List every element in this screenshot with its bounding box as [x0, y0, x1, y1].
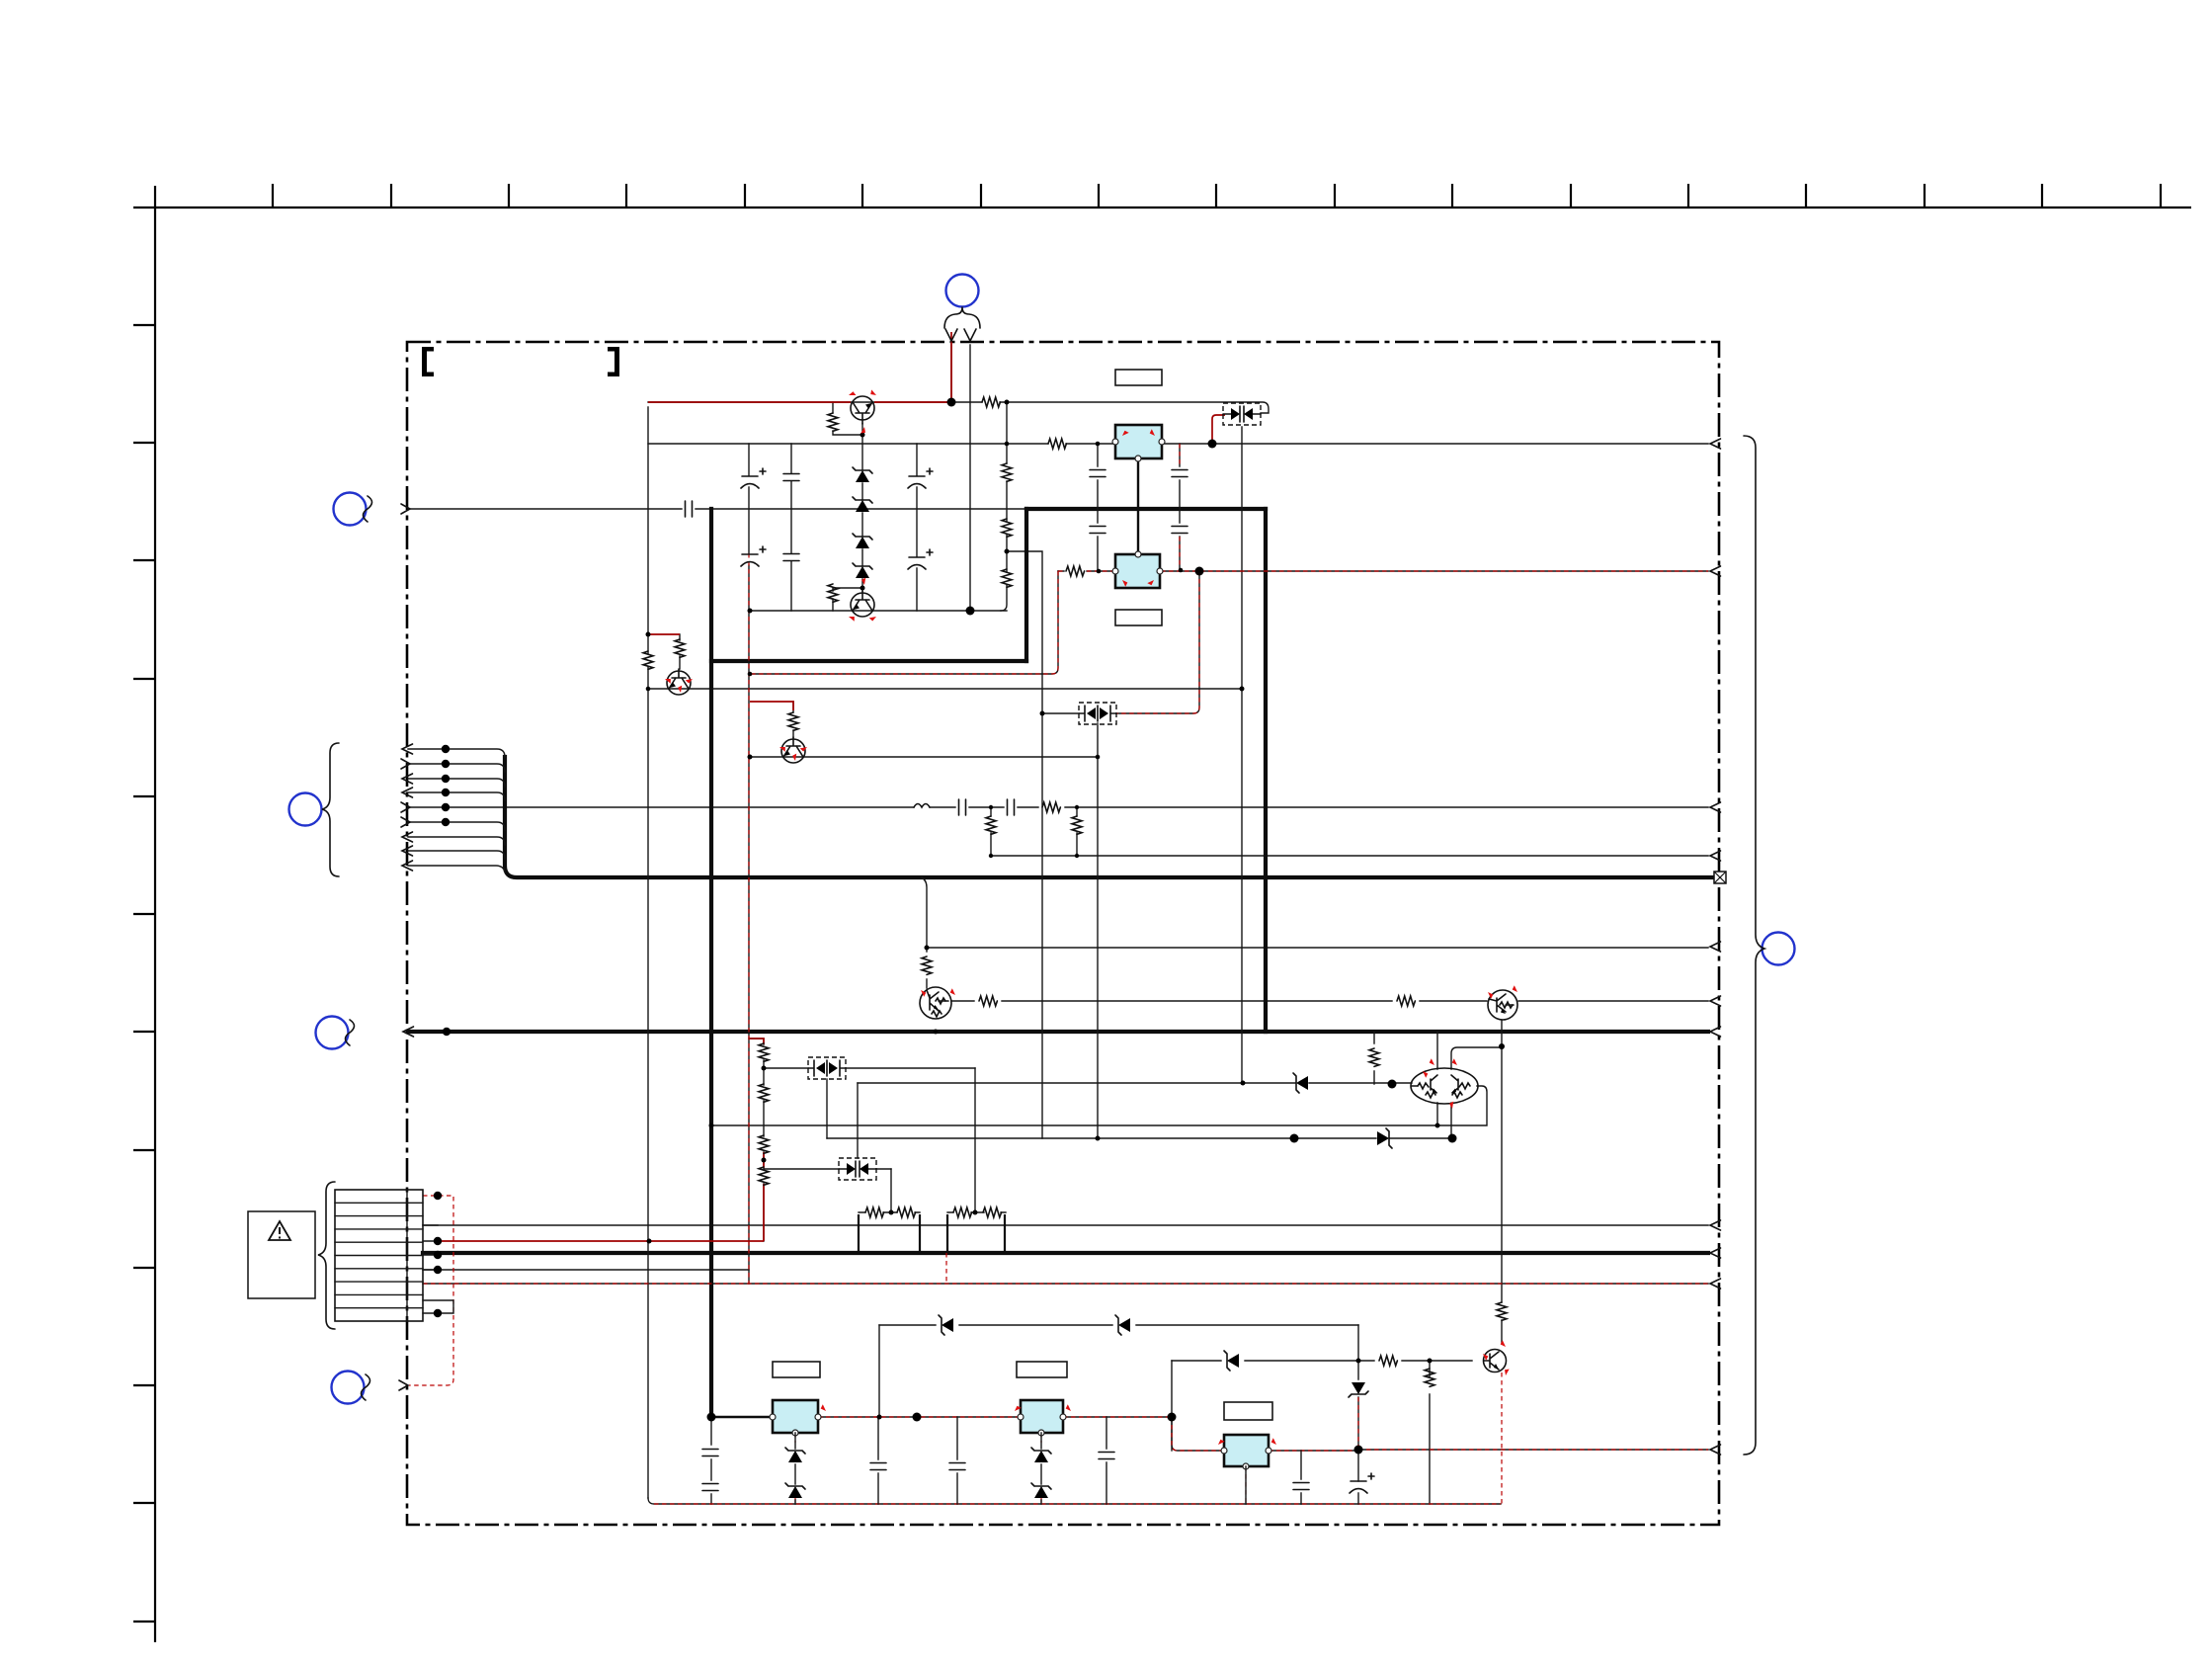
- connector CN5 entry arrow: [399, 1380, 408, 1390]
- wire x805 base: [792, 702, 794, 737]
- connector CN3 circle: [289, 793, 322, 826]
- wire red-dash connector entry: [409, 1196, 453, 1385]
- wire x902: [890, 1169, 892, 1212]
- frame top tick marks: [273, 184, 2161, 208]
- connector CN5 marks: [362, 1374, 370, 1400]
- wire C16 stubs: [877, 1417, 879, 1504]
- wire red y407: [648, 401, 951, 403]
- capacitor C10: [1172, 470, 1188, 477]
- zener D10: [1349, 1382, 1368, 1397]
- wire y1152: [827, 1137, 1452, 1139]
- connector CN6 circle: [1762, 933, 1795, 965]
- frame left border line: [154, 186, 156, 1642]
- label LB3: [773, 1362, 820, 1377]
- wire red y1256: [438, 1240, 764, 1242]
- resistor R2: [828, 584, 838, 602]
- wire C17 stubs: [956, 1417, 958, 1504]
- wire x843 t1: [833, 402, 862, 435]
- connector CN3 arrows in: [401, 759, 410, 827]
- transistor Q4: [781, 737, 805, 763]
- wire red-dash x1214: [1116, 571, 1199, 713]
- IC U2: [1112, 551, 1163, 588]
- wire red top entry x963: [950, 332, 952, 402]
- wire x1186: [1172, 1361, 1224, 1451]
- capacitor C19: [1293, 1483, 1309, 1490]
- wire net A y449: [648, 443, 1708, 445]
- resistor R25: [1066, 566, 1085, 576]
- frame top border line: [133, 207, 2191, 208]
- board name bracket left: [422, 347, 434, 376]
- frame left tick marks: [133, 325, 155, 1622]
- wire ic1t-ic2t link: [1137, 458, 1139, 554]
- wire y407: [648, 402, 1269, 413]
- zener D4: [853, 563, 872, 578]
- resistor R21: [759, 1167, 769, 1185]
- resistor network RN2: [947, 1207, 1006, 1253]
- connector CN4 circle: [316, 1017, 349, 1049]
- connector CN1 circle: [946, 275, 979, 307]
- dual transistor Q7: [1411, 1068, 1478, 1104]
- transistor Q3: [667, 669, 691, 695]
- wire red tb stub: [750, 702, 793, 710]
- wire x890: [878, 1325, 880, 1417]
- resistor R17: [1369, 1048, 1379, 1066]
- resistor R16: [1397, 996, 1415, 1006]
- wire net C y578 output: [1161, 570, 1708, 572]
- wire x758 column: [748, 444, 750, 1284]
- label LB1: [1115, 370, 1162, 385]
- wire x1214: [1116, 571, 1199, 713]
- capacitor C5: [908, 468, 933, 488]
- CONNECTORS: [248, 275, 1795, 1456]
- transistor Q2: [851, 591, 874, 617]
- wire x1257: [1241, 427, 1243, 1083]
- resistor R4: [1002, 519, 1012, 537]
- wire thick x1281: [1264, 509, 1268, 1032]
- wire x720 caps-to-rail: [710, 1417, 712, 1504]
- resistor R11: [1042, 802, 1060, 812]
- wire thick y669: [711, 659, 1026, 663]
- wire x982: [969, 345, 971, 611]
- capacitor C13: [1008, 799, 1015, 815]
- wire pc2 center stub: [857, 1083, 859, 1158]
- capacitor C6: [908, 549, 933, 569]
- capacitor C7: [686, 501, 693, 517]
- zener D9: [1224, 1351, 1239, 1371]
- wire red-dash x758: [748, 553, 750, 1284]
- photocoupler PC4: [1079, 703, 1116, 724]
- wire red-dash ic row: [818, 1417, 1224, 1451]
- resistor R14: [922, 957, 932, 974]
- wire net B y515: [409, 508, 1028, 510]
- wire x1186b: [1171, 1417, 1173, 1451]
- capacitor C17: [949, 1463, 965, 1470]
- capacitor C18: [1099, 1453, 1114, 1459]
- wire x656: [647, 407, 649, 1498]
- resistor R6: [982, 397, 1000, 407]
- wire red-dash ic3 out: [1269, 1450, 1708, 1451]
- connector CN1 brace: [944, 307, 980, 328]
- wire zener stubs: [795, 1433, 1041, 1504]
- capacitor C3: [783, 474, 799, 481]
- connector CN4 marks: [346, 1020, 355, 1045]
- resistor R15: [979, 996, 997, 1006]
- wire x1520: [1501, 1021, 1503, 1344]
- wire net C left y578: [1058, 570, 1116, 572]
- wire thick y1268: [423, 1251, 1708, 1255]
- wire C18 stubs: [1106, 1417, 1107, 1504]
- wire pc1 row: [764, 1067, 975, 1069]
- wire C19 stubs: [1300, 1451, 1302, 1504]
- wire y697: [647, 688, 1242, 690]
- capacitor C16: [870, 1463, 886, 1470]
- resistor R3: [1002, 463, 1012, 481]
- wire pc1 bottom stub: [826, 1079, 828, 1138]
- zener D12: [785, 1483, 805, 1498]
- REDOVERLAY: [409, 332, 1708, 1504]
- node bundle wires: [408, 749, 505, 872]
- wire red-dash y578: [1058, 570, 1708, 572]
- capacitor C11: [1172, 527, 1188, 534]
- resistor R10: [788, 712, 798, 730]
- capacitor C9: [1090, 527, 1106, 534]
- wire y1096: [858, 1082, 1412, 1084]
- wire x1375: [1357, 1325, 1359, 1450]
- wire red-dash rail: [654, 1503, 1501, 1505]
- wire x1071 red path: [750, 571, 1058, 674]
- inductor L1: [914, 804, 930, 808]
- connector CN6 brace: [1744, 436, 1764, 1455]
- connector CN4 arrow: [403, 1027, 414, 1037]
- wire thick y1044: [408, 1030, 1708, 1034]
- wire y955: [927, 947, 1708, 949]
- wire y1377: [1172, 1360, 1472, 1362]
- zener D1: [853, 467, 872, 482]
- connector CN7 block: [335, 1190, 423, 1321]
- capacitor C8: [1090, 470, 1106, 477]
- wire y618: [750, 610, 1007, 612]
- resistor R19: [759, 1084, 769, 1102]
- resistor R22: [1379, 1356, 1397, 1366]
- transistor Q8: [1484, 1350, 1507, 1373]
- wire rc resistors x1003 x1090: [991, 807, 1077, 856]
- wire red pc1t feed: [1212, 415, 1225, 442]
- wire y1139: [711, 1124, 1437, 1126]
- label LB5: [1224, 1402, 1272, 1420]
- wire y1299 rail: [423, 1283, 1708, 1285]
- board outline dash-dot box: [407, 342, 1719, 1525]
- wire R17 stubs: [1373, 1032, 1375, 1084]
- connector CN2 entry arrow: [401, 504, 410, 514]
- transistor Q5: [920, 987, 951, 1019]
- red pin arrows: [664, 389, 1519, 1375]
- wire y1285: [423, 1269, 749, 1271]
- resistor R13: [1072, 816, 1082, 834]
- wire y1060 link: [1451, 1047, 1502, 1069]
- wire ic row mid y1434: [818, 1416, 1172, 1418]
- IC U4: [1014, 1400, 1073, 1436]
- wire y766: [750, 756, 1098, 758]
- wire x773 chain: [749, 1039, 764, 1241]
- wire x987: [974, 1068, 976, 1212]
- wire PC4 left stub: [1042, 712, 1079, 714]
- capacitor C1: [741, 468, 766, 488]
- zener D2: [853, 497, 872, 512]
- connector CN7 stubs: [423, 1225, 453, 1313]
- wire red-dash x958: [945, 1253, 947, 1284]
- resistor R9: [675, 639, 685, 657]
- wire y1240: [423, 1224, 1708, 1226]
- wire x1455: [1436, 1032, 1438, 1125]
- terminal ground box: [1714, 872, 1726, 883]
- wire thick x1039: [1024, 509, 1028, 661]
- resistor R20: [759, 1135, 769, 1153]
- zener D8: [1115, 1315, 1130, 1335]
- zener D14: [1031, 1483, 1051, 1498]
- capacitor C12: [959, 799, 966, 815]
- zener D6: [1377, 1128, 1392, 1148]
- photocoupler PC1: [1223, 403, 1261, 425]
- zener D7: [939, 1315, 953, 1335]
- IC U1: [1112, 425, 1165, 461]
- wire x1447: [1429, 1361, 1431, 1504]
- IC U5: [1217, 1435, 1278, 1469]
- resistor R8: [643, 651, 653, 669]
- resistor R7: [1048, 439, 1066, 449]
- resistor network RN1: [859, 1207, 920, 1253]
- wire red t1 stub: [648, 633, 680, 635]
- wire thick x720: [709, 509, 713, 1417]
- wire y818 line: [408, 806, 1708, 808]
- resistor R24: [1497, 1302, 1507, 1320]
- warning box W1: [248, 1211, 315, 1298]
- wire oval loop: [1437, 1086, 1487, 1125]
- wire elbow x945: [922, 877, 927, 988]
- terminal arrows right: [1710, 439, 1721, 1455]
- wire net B thick right y515: [1026, 507, 1266, 511]
- photocoupler PC2: [808, 1057, 846, 1079]
- wire x1111t column: [1097, 444, 1099, 571]
- zener D5: [1293, 1073, 1308, 1093]
- wire x689 base: [679, 634, 681, 669]
- wire x1194 column: [1179, 444, 1181, 569]
- wire red-dash x1520: [1501, 1373, 1503, 1504]
- resistor R12: [986, 816, 996, 834]
- wire x1055: [1007, 551, 1042, 1138]
- connector CN1 entry arrows: [945, 329, 976, 341]
- wire ic3 out y1467: [1269, 1450, 1708, 1451]
- wire x872 zeners column: [861, 424, 863, 591]
- connector CN2 circle: [334, 493, 367, 526]
- wire red-dash ic1b stub: [795, 1433, 1246, 1504]
- zener D3: [853, 534, 872, 548]
- resistor R18: [759, 1043, 769, 1061]
- wire red x773 links: [749, 1039, 764, 1241]
- wire red-dash x1375: [1357, 1397, 1359, 1450]
- wire rail y1522: [648, 1498, 1501, 1504]
- photocoupler PC3: [839, 1158, 876, 1180]
- wire ic row y1434: [711, 1416, 773, 1418]
- resistor R1: [828, 413, 838, 431]
- wire red-dash x1071 elbow: [750, 571, 1058, 674]
- capacitor C4: [783, 554, 799, 561]
- wire x928 column: [916, 444, 918, 611]
- wire x1111: [1097, 723, 1099, 1138]
- zener D13: [1031, 1448, 1051, 1462]
- connector CN3 arrows out: [402, 744, 413, 871]
- wire red-dash x1194: [1179, 444, 1181, 569]
- wire x801 column: [790, 444, 792, 611]
- wire x843 t2: [833, 588, 862, 611]
- label LB2: [1115, 610, 1162, 625]
- label LB4: [1017, 1362, 1067, 1377]
- wire pc2 row: [764, 1168, 891, 1170]
- wire y867 line: [991, 855, 1708, 857]
- capacitor C14: [702, 1450, 718, 1456]
- capacitor C20: [1350, 1473, 1374, 1493]
- wire y1341: [879, 1324, 1358, 1326]
- connector CN2 marks: [364, 496, 372, 522]
- resistor R23: [1425, 1369, 1434, 1386]
- wire thick bus y890: [505, 757, 1712, 877]
- transistor Q1: [851, 396, 874, 424]
- zener D11: [785, 1448, 805, 1462]
- wire x1019: [1001, 402, 1007, 611]
- connector CN5 circle: [332, 1372, 365, 1404]
- wire C20 stubs: [1246, 1450, 1358, 1504]
- connector CN3 brace: [322, 743, 339, 876]
- wire x963: [950, 345, 952, 402]
- board name bracket right: [608, 347, 619, 376]
- capacitor C2: [741, 546, 766, 566]
- transistor Q6: [1488, 990, 1517, 1020]
- wire red-dash y1299: [423, 1283, 1708, 1285]
- wire y1011: [951, 1000, 1708, 1002]
- IC U3: [770, 1400, 828, 1436]
- BOARDBOX: [407, 342, 1719, 1525]
- wire x1469b: [1450, 1103, 1452, 1138]
- connector CN7 brace: [318, 1182, 335, 1329]
- resistor R5: [1002, 569, 1012, 587]
- capacitor C15: [702, 1484, 718, 1491]
